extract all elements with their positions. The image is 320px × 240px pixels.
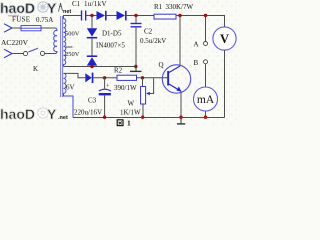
svg-text:0.75A: 0.75A <box>36 16 53 24</box>
capacitor C2 <box>131 23 142 25</box>
svg-text:B: B <box>194 59 199 67</box>
voltmeter V <box>213 27 236 50</box>
capacitor C1 <box>81 11 83 21</box>
AC input plug bottom prong <box>4 49 12 58</box>
diode D4 (pointing up) <box>87 55 97 57</box>
node: terminal A junction <box>204 14 207 17</box>
svg-text:Q: Q <box>159 61 164 69</box>
svg-text:1: 1 <box>127 118 131 127</box>
node: chain/rail junction <box>90 65 93 68</box>
capacitor C3 branch: lead down <box>104 78 106 89</box>
svg-text:K: K <box>33 65 38 73</box>
node: W bottom junction <box>141 116 144 119</box>
capacitor C3 bottom plate <box>99 93 111 95</box>
svg-text:W: W <box>128 100 135 108</box>
wire: multiplier chain top <box>91 16 93 29</box>
caption 图1 (figure 1) drawn glyph <box>117 120 123 126</box>
HV return rail wire <box>64 66 136 68</box>
wire: C3 to bottom rail <box>104 95 106 117</box>
potentiometer W top lead <box>142 78 144 87</box>
transistor Q emitter line <box>169 84 181 91</box>
transformer secondary HV winding (500V/250V) <box>64 16 66 67</box>
transistor Q base bar <box>167 71 169 86</box>
switch K lever <box>28 48 38 52</box>
svg-text:mA: mA <box>197 94 215 106</box>
svg-text:V: V <box>220 32 229 46</box>
svg-text:1K/1W: 1K/1W <box>120 109 141 117</box>
wire: fuse to transformer primary top <box>41 27 56 29</box>
svg-text:250V: 250V <box>65 51 80 58</box>
bottom rail wire <box>73 117 225 119</box>
node: C3/bottom rail junction <box>103 116 106 119</box>
AC input plug top prong <box>4 24 12 33</box>
wire: switch to transformer primary bottom <box>45 53 56 55</box>
wire: collector to top rail <box>179 16 181 67</box>
diode D1 <box>97 11 106 20</box>
svg-text:C3: C3 <box>88 97 97 105</box>
wire: mA to bottom rail <box>205 111 207 118</box>
transformer secondary 6V winding <box>64 73 74 117</box>
svg-text:.net: .net <box>58 115 68 121</box>
wire: D1 to D2 <box>107 15 117 17</box>
svg-text:390/1W: 390/1W <box>114 84 137 92</box>
potentiometer W body <box>141 87 146 105</box>
wire: V meter to bottom rail <box>224 50 226 117</box>
svg-text:C1: C1 <box>72 0 81 8</box>
transistor Q emitter arrow <box>176 87 181 92</box>
transistor Q collector line <box>169 66 180 73</box>
terminal A <box>204 42 208 46</box>
svg-text:330K/7W: 330K/7W <box>166 3 194 11</box>
capacitor C3 electrolytic top plate <box>99 89 111 91</box>
fuse F (box with element) <box>21 26 41 31</box>
wire: C2 to ground <box>135 27 137 67</box>
node: mA/bottom rail junction <box>204 116 207 119</box>
svg-text:6V: 6V <box>66 84 75 92</box>
ammeter mA <box>194 87 218 111</box>
watermark haoDIY.net top-left <box>0 0 71 17</box>
wire: R1 to V meter corner <box>176 15 225 17</box>
diode D5 <box>85 73 91 82</box>
wire: plug to fuse <box>12 27 22 29</box>
svg-text:C2: C2 <box>144 28 153 36</box>
svg-text:FUSE: FUSE <box>12 16 30 24</box>
svg-text:Y: Y <box>47 106 57 122</box>
svg-text:1u/1kV: 1u/1kV <box>84 0 107 8</box>
250V tap stub <box>66 46 73 48</box>
wire: R2 to Q base <box>137 77 168 79</box>
resistor R1 <box>154 14 176 19</box>
node: collector junction <box>178 14 181 17</box>
switch K contact circle right <box>40 51 44 55</box>
svg-text:A: A <box>194 41 199 49</box>
svg-text:R2: R2 <box>114 67 123 75</box>
potentiometer W bottom lead <box>142 104 144 118</box>
svg-text:0.5u/2kV: 0.5u/2kV <box>140 37 166 45</box>
svg-text:IN4007×5: IN4007×5 <box>96 42 125 50</box>
transistor Q circle <box>162 65 190 93</box>
wire: D3 to D4 <box>91 39 93 56</box>
node: emitter/bottom rail junction <box>179 116 182 119</box>
svg-text:D1-D5: D1-D5 <box>102 30 122 38</box>
terminal B <box>204 60 208 64</box>
svg-text:R1: R1 <box>154 3 163 11</box>
switch K contact circle left <box>23 52 27 56</box>
wire: terminal A lead <box>205 16 207 42</box>
wire: D2 to R1 <box>127 15 154 17</box>
wire: 6V tap with jog to D5 <box>64 73 86 77</box>
capacitor C2 branch: lead down <box>135 16 137 24</box>
node: C3 junction <box>103 76 106 79</box>
wire: B to mA meter <box>205 64 207 87</box>
diode D3 (pointing down) <box>87 28 97 36</box>
ground (C2) <box>135 67 137 72</box>
svg-text:haoD: haoD <box>0 106 35 122</box>
svg-text:haoD: haoD <box>0 0 35 16</box>
node: D2/C2 junction <box>134 14 137 17</box>
svg-text:Y: Y <box>47 0 57 16</box>
wire: transformer top to C1 <box>63 15 81 17</box>
node: W top junction <box>141 76 144 79</box>
wire: emitter to bottom rail <box>180 91 182 117</box>
svg-text:500V: 500V <box>65 31 80 38</box>
ground (emitter) <box>180 118 182 124</box>
voltmeter V top lead <box>224 16 226 28</box>
transformer core <box>60 16 62 97</box>
transformer T primary winding <box>54 28 57 54</box>
wire: D5 to R2 <box>93 77 117 79</box>
watermark haoDIY.net bottom-left <box>0 106 68 122</box>
wire: C1 to D1 <box>86 15 97 17</box>
resistor R2 <box>117 75 137 80</box>
wire: D4 to HV return rail <box>91 65 93 68</box>
svg-text:net: net <box>63 9 71 15</box>
diode D2 <box>117 11 126 20</box>
node: C2/HV-return junction <box>134 65 137 68</box>
potentiometer W wiper arrow <box>146 92 150 96</box>
node: C1/D1/D3 junction <box>90 14 93 17</box>
wire: plug to switch <box>12 53 23 55</box>
svg-text:AC220V: AC220V <box>1 38 29 47</box>
svg-text:220u/16V: 220u/16V <box>74 109 102 117</box>
